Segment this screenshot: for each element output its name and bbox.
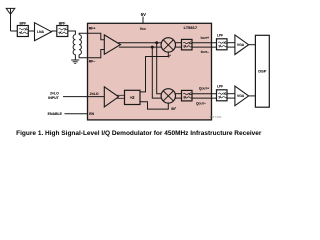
- wire RF- to amp: [88, 50, 105, 58]
- wire Q filter to LPF upper: [192, 93, 217, 95]
- DSP block: [255, 35, 269, 107]
- svg-text:5V: 5V: [141, 12, 146, 17]
- Q path: wire Q mixer to Q filter upper: [175, 93, 181, 95]
- svg-text:LPF: LPF: [217, 85, 223, 89]
- svg-text:INPUT: INPUT: [48, 96, 59, 100]
- ENABLE input wire: [65, 113, 88, 115]
- wire upper tap down to Q mixer: [157, 43, 162, 94]
- wire secondary bottom to RF- pin: [79, 55, 87, 58]
- svg-text:BPF: BPF: [59, 21, 66, 25]
- wire RF amp to I mixer upper: [118, 42, 161, 44]
- wire BPF2 to balun: [68, 31, 76, 35]
- antenna: [6, 8, 15, 31]
- wire I mixer to I filter lower: [175, 46, 181, 48]
- mixer Q: [161, 89, 175, 103]
- svg-text:BPF: BPF: [19, 21, 26, 25]
- LO input wire: [63, 96, 104, 98]
- VGA I amplifier: [235, 35, 249, 55]
- svg-text:ENABLE: ENABLE: [48, 112, 63, 116]
- wire LO amp to div2 lower: [117, 97, 125, 99]
- svg-text:EN: EN: [89, 112, 94, 116]
- svg-text:QOUT+: QOUT+: [199, 86, 209, 90]
- VGA Q amplifier: [235, 86, 249, 106]
- Q output filter: [182, 90, 193, 101]
- LO 0deg path to I mixer: [140, 52, 168, 92]
- svg-text:RF–: RF–: [89, 59, 96, 63]
- svg-text:LPF: LPF: [217, 34, 223, 38]
- svg-text:QOUT–: QOUT–: [196, 102, 206, 106]
- wire RF+ to amp: [88, 33, 105, 40]
- IC block LT5517 body: [88, 23, 212, 120]
- wires LPF Q to VGA Q: [227, 93, 235, 95]
- wires LPF I to VGA I: [227, 42, 235, 44]
- BPF filter 1: [17, 26, 28, 37]
- RF amplifier U1: [104, 35, 120, 54]
- wire lower tap down to Q mixer: [152, 47, 161, 98]
- svg-text:IOUT–: IOUT–: [201, 50, 209, 54]
- wire I mixer to I filter upper: [175, 42, 181, 44]
- balun transformer secondary: [79, 35, 81, 55]
- wire BPF1 to LNA: [28, 30, 34, 32]
- wire I filter to LPF lower: [192, 46, 217, 48]
- svg-text:LT5517: LT5517: [184, 25, 198, 30]
- svg-text:Figure 1. High Signal-Level I/: Figure 1. High Signal-Level I/Q Demodula…: [16, 130, 262, 137]
- LPF I block: [217, 39, 228, 50]
- svg-text:IOUT+: IOUT+: [201, 36, 209, 40]
- LO amplifier: [104, 87, 118, 107]
- svg-text:VGA: VGA: [237, 43, 245, 47]
- svg-text:2×LO: 2×LO: [50, 92, 59, 96]
- balun transformer primary: [73, 35, 75, 55]
- wire primary bottom to ground: [74, 55, 76, 60]
- svg-text:÷2: ÷2: [130, 95, 135, 100]
- svg-text:RF+: RF+: [89, 26, 96, 30]
- I output filter: [182, 39, 193, 50]
- wire I filter to LPF upper: [192, 42, 217, 44]
- svg-text:90°: 90°: [171, 107, 177, 111]
- svg-text:VCC: VCC: [140, 27, 146, 31]
- wire LO amp to div2 upper: [117, 94, 125, 96]
- wire VGA I to DSP: [249, 44, 256, 46]
- 5V supply wire: [142, 17, 144, 24]
- svg-text:5517 F01: 5517 F01: [210, 115, 222, 119]
- wire Q filter to LPF lower: [192, 97, 217, 99]
- svg-text:2×LO: 2×LO: [90, 92, 99, 96]
- wire Q mixer to Q filter lower: [175, 97, 181, 99]
- wire VGA Q to DSP: [249, 95, 256, 97]
- svg-text:DSP: DSP: [258, 69, 266, 74]
- junction dot lower: [151, 46, 154, 49]
- svg-text:LNA: LNA: [37, 30, 45, 34]
- junction dot upper: [155, 41, 158, 44]
- divide-by-2 block: [125, 90, 141, 104]
- LO 90deg path to Q mixer: [140, 102, 168, 109]
- wire secondary top to RF+ pin: [79, 33, 87, 34]
- LNA amplifier: [35, 23, 52, 41]
- mixer I: [161, 38, 175, 52]
- wire antenna to BPF1: [11, 30, 18, 32]
- BPF filter 2: [57, 26, 68, 37]
- wire LNA to BPF2: [52, 30, 57, 32]
- wire RF amp to I mixer lower: [119, 46, 161, 48]
- LPF Q block: [217, 90, 228, 101]
- svg-text:VGA: VGA: [237, 94, 245, 98]
- ground: [71, 60, 79, 63]
